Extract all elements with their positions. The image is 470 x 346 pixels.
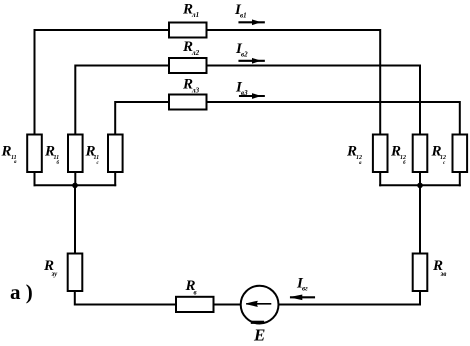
svg-text:вг: вг (302, 285, 308, 293)
label a) (10, 280, 33, 304)
resistor R11b (left group 2) (68, 135, 83, 173)
resistor Rv (bottom middle) (176, 297, 214, 312)
resistor R12a (right group 1) (373, 135, 388, 173)
wire left stem down to Rzu (74, 185, 76, 253)
wire row 3 left corner to resistor Rl3 (115, 102, 169, 135)
resistor Rzu (bottom left) (68, 254, 83, 292)
label Rzu (43, 258, 58, 278)
current arrow Ivg (bottom, points left) (291, 295, 314, 299)
label Ivg (296, 276, 308, 293)
source E bottom ink blob (252, 321, 262, 324)
source E internal arrow (points left) (246, 301, 270, 306)
wire drop below R11a (34, 172, 36, 185)
current arrow Iv1 (row 1, points right) (240, 20, 264, 24)
label R11b (44, 144, 60, 167)
label R12a (346, 144, 362, 167)
resistor Rl2 (169, 58, 207, 73)
resistor Rl3 (169, 95, 207, 110)
wire drop below R12a (379, 172, 381, 185)
junction dot right bus (417, 183, 423, 189)
resistor R12b (right group 2) (413, 135, 428, 173)
svg-text:б: б (57, 161, 60, 166)
label R11a (1, 144, 18, 166)
svg-text:л3: л3 (191, 87, 200, 95)
wire drop below R12b (419, 172, 421, 185)
label Rl2 (182, 39, 200, 57)
label Rl3 (182, 77, 200, 95)
svg-text:а ): а ) (10, 280, 33, 304)
wire from Rv to source E (214, 304, 241, 306)
junction dot left bus (72, 183, 78, 189)
resistor R11c (left group 3) (108, 135, 123, 173)
svg-text:с: с (97, 161, 100, 166)
svg-text:в3: в3 (241, 89, 248, 97)
svg-text:в2: в2 (241, 51, 248, 59)
current arrow Iv3 (row 3, points right) (240, 94, 264, 98)
wire from Rzu to bottom rail corner (75, 291, 176, 305)
current arrow Iv2 (row 2, points right) (240, 59, 264, 63)
svg-text:зу: зу (51, 270, 59, 278)
svg-text:в: в (194, 289, 197, 297)
wire left bottom bus (35, 184, 116, 186)
svg-text:зв: зв (440, 270, 447, 278)
label Iv3 (235, 80, 248, 98)
svg-text:л1: л1 (191, 11, 199, 19)
wire row 1 right from Rl1 to right branch 1 (207, 30, 381, 135)
wire row 2 right from Rl2 to right branch 2 (207, 66, 421, 135)
label Rv (185, 278, 197, 297)
label Rl1 (182, 2, 199, 20)
svg-text:в1: в1 (240, 12, 247, 20)
label Iv1 (234, 2, 247, 20)
wire row 3 right from Rl3 to right branch 3 (207, 102, 460, 135)
svg-text:R: R (1, 144, 12, 160)
wire drop below R12c (459, 172, 461, 185)
wire right stem from Rzv up to right bus (419, 185, 421, 253)
resistor R11a (left group 1) (27, 135, 42, 173)
wire right bottom bus (380, 184, 460, 186)
wire from node A down-left corner to resistor Rl1 (row 1 left) (35, 30, 170, 135)
svg-text:а: а (359, 161, 362, 166)
resistor R12c (right group 3) (453, 135, 468, 173)
source E circle (241, 286, 279, 324)
svg-text:л2: л2 (191, 49, 200, 57)
resistor Rzv (bottom right) (413, 254, 428, 292)
wire row 2 left corner to resistor Rl2 (75, 66, 169, 135)
label R12c (431, 144, 447, 167)
wire from source E to bottom right corner up to Rzv (279, 291, 421, 305)
label E (253, 326, 265, 345)
svg-text:E: E (253, 326, 265, 345)
resistor Rl1 (169, 23, 207, 38)
svg-text:с: с (443, 161, 446, 166)
label Iv2 (235, 41, 248, 59)
svg-text:б: б (403, 161, 406, 166)
wire drop below R11c (114, 172, 116, 185)
label Rzv (432, 258, 446, 278)
label R12b (390, 144, 406, 167)
label R11c (85, 144, 100, 167)
wire drop below R11b (74, 172, 76, 185)
